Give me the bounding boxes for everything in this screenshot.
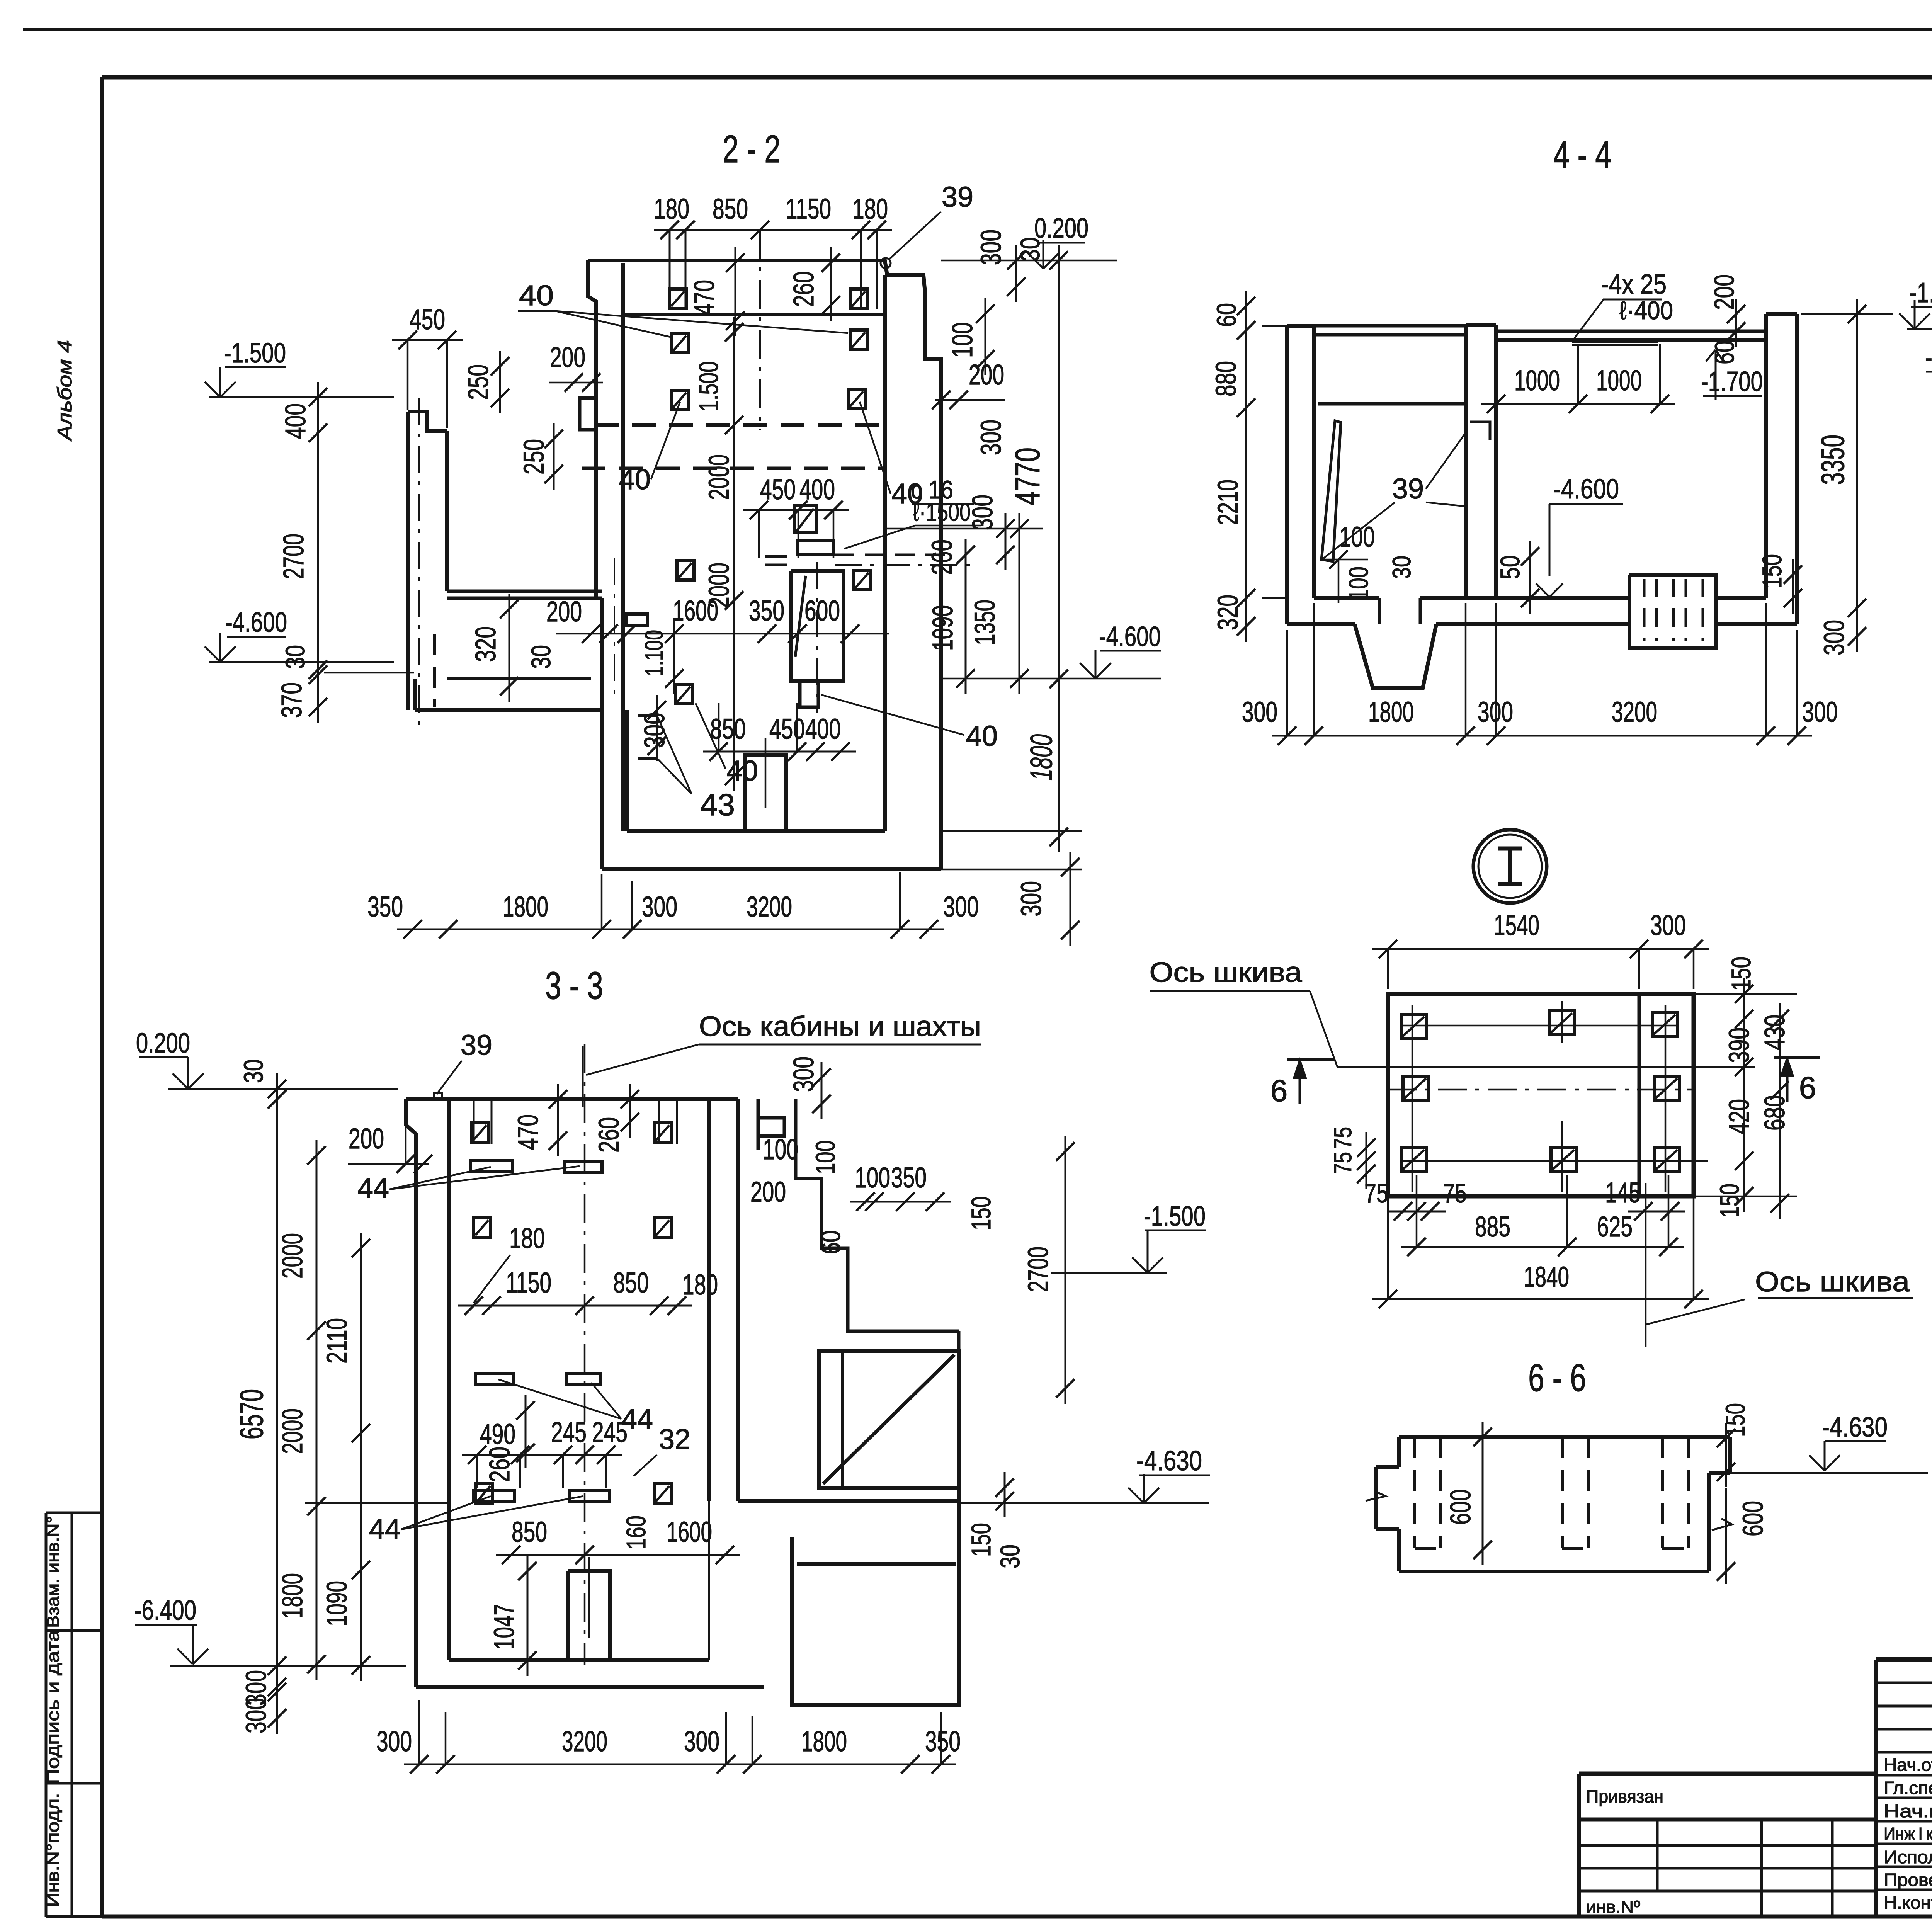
- svg-text:60: 60: [816, 1230, 846, 1254]
- svg-text:260: 260: [787, 271, 820, 307]
- svg-text:2 - 2: 2 - 2: [723, 128, 781, 171]
- svg-text:350: 350: [891, 1162, 927, 1194]
- svg-text:39: 39: [461, 1029, 492, 1061]
- svg-text:300: 300: [684, 1725, 719, 1757]
- svg-text:100: 100: [946, 322, 978, 358]
- svg-text:3200: 3200: [562, 1725, 607, 1757]
- svg-text:150: 150: [1714, 1184, 1745, 1218]
- svg-text:260: 260: [483, 1447, 515, 1482]
- svg-text:75: 75: [1329, 1127, 1357, 1149]
- svg-text:390: 390: [1723, 1027, 1755, 1063]
- svg-text:1150: 1150: [506, 1267, 551, 1299]
- svg-text:2000: 2000: [276, 1233, 308, 1279]
- svg-text:470: 470: [688, 280, 720, 315]
- svg-text:Взам. инв.N°: Взам. инв.N°: [44, 1516, 63, 1628]
- svg-text:39: 39: [942, 181, 973, 213]
- svg-text:600: 600: [1444, 1489, 1476, 1525]
- svg-text:-1.300: -1.300: [1910, 277, 1932, 308]
- svg-text:-1.500: -1.500: [1144, 1201, 1206, 1232]
- svg-text:430: 430: [1759, 1015, 1791, 1050]
- svg-text:30: 30: [1387, 556, 1416, 579]
- svg-text:Альбом 4: Альбом 4: [54, 340, 76, 442]
- svg-text:40: 40: [726, 755, 758, 787]
- svg-text:1000: 1000: [1514, 364, 1560, 396]
- svg-text:-4х 25: -4х 25: [1601, 269, 1667, 300]
- svg-text:680: 680: [1759, 1095, 1791, 1131]
- svg-text:39: 39: [1392, 473, 1424, 505]
- svg-text:2700: 2700: [277, 534, 310, 579]
- svg-text:-1.500: -1.500: [1925, 342, 1932, 373]
- svg-text:40: 40: [891, 478, 923, 510]
- svg-text:Подпись и дата: Подпись и дата: [44, 1629, 63, 1784]
- svg-text:43: 43: [700, 787, 735, 822]
- svg-text:1800: 1800: [276, 1573, 308, 1619]
- svg-text:Привязан: Привязан: [1586, 1786, 1663, 1806]
- svg-text:Инж I кат: Инж I кат: [1884, 1824, 1932, 1844]
- svg-text:600: 600: [804, 595, 840, 627]
- svg-text:1540: 1540: [1494, 909, 1539, 941]
- svg-text:1090: 1090: [927, 605, 959, 651]
- svg-text:2000: 2000: [703, 454, 735, 500]
- svg-text:6: 6: [1799, 1070, 1816, 1105]
- svg-text:300: 300: [943, 891, 979, 923]
- svg-text:инв.Nº: инв.Nº: [1586, 1898, 1640, 1917]
- svg-text:3 - 3: 3 - 3: [545, 964, 603, 1007]
- svg-text:40: 40: [519, 279, 554, 311]
- svg-text:300: 300: [1242, 696, 1277, 728]
- svg-text:260: 260: [593, 1117, 625, 1153]
- svg-text:32: 32: [659, 1423, 690, 1455]
- svg-text:300: 300: [638, 713, 670, 748]
- svg-text:ℓ·400: ℓ·400: [1619, 296, 1673, 325]
- svg-text:100: 100: [1344, 566, 1374, 600]
- svg-text:Гл.спец: Гл.спец: [1884, 1778, 1932, 1798]
- svg-text:1.500: 1.500: [694, 361, 724, 412]
- svg-text:1600: 1600: [673, 595, 718, 627]
- svg-text:180: 180: [509, 1222, 545, 1254]
- svg-text:Ось шкива: Ось шкива: [1755, 1267, 1910, 1298]
- svg-text:490: 490: [480, 1418, 515, 1450]
- svg-text:60: 60: [1211, 303, 1242, 327]
- svg-text:75: 75: [1364, 1178, 1388, 1208]
- svg-text:-1.700: -1.700: [1701, 366, 1763, 397]
- svg-text:Н.контр: Н.контр: [1884, 1893, 1932, 1913]
- svg-text:300: 300: [642, 891, 677, 923]
- svg-text:850: 850: [710, 713, 746, 745]
- svg-text:-4.600: -4.600: [1553, 474, 1619, 505]
- svg-text:400: 400: [805, 713, 841, 745]
- svg-text:300: 300: [1650, 909, 1686, 941]
- svg-text:420: 420: [1723, 1099, 1755, 1134]
- svg-text:100: 100: [810, 1140, 840, 1174]
- svg-text:75: 75: [1329, 1152, 1357, 1174]
- svg-text:150: 150: [966, 1196, 996, 1230]
- svg-text:250: 250: [518, 439, 550, 474]
- svg-text:850: 850: [613, 1267, 649, 1299]
- svg-text:4 - 4: 4 - 4: [1553, 133, 1611, 177]
- svg-text:180: 180: [852, 193, 888, 225]
- svg-text:2110: 2110: [321, 1318, 353, 1364]
- svg-text:850: 850: [713, 193, 748, 225]
- svg-text:1800: 1800: [503, 891, 548, 923]
- svg-text:60: 60: [1709, 340, 1740, 364]
- svg-text:Провер: Провер: [1884, 1870, 1932, 1890]
- svg-text:400: 400: [799, 473, 835, 505]
- svg-text:160: 160: [621, 1515, 651, 1549]
- svg-text:1600: 1600: [667, 1516, 712, 1548]
- svg-text:300: 300: [975, 420, 1007, 455]
- svg-text:300: 300: [1818, 620, 1850, 655]
- svg-text:1800: 1800: [801, 1725, 847, 1757]
- svg-text:30: 30: [1015, 237, 1045, 261]
- svg-text:3350: 3350: [1815, 435, 1851, 485]
- svg-text:Ось кабины и шахты: Ось кабины и шахты: [699, 1011, 981, 1042]
- svg-text:-6.400: -6.400: [134, 1595, 196, 1626]
- svg-text:180: 180: [654, 193, 689, 225]
- svg-text:300: 300: [1015, 881, 1047, 917]
- svg-text:470: 470: [512, 1114, 544, 1150]
- svg-text:260: 260: [926, 539, 958, 575]
- svg-text:250: 250: [462, 364, 494, 400]
- svg-text:880: 880: [1210, 361, 1242, 396]
- svg-text:150: 150: [966, 1523, 996, 1557]
- svg-text:Нач.гр: Нач.гр: [1884, 1801, 1932, 1821]
- svg-text:6570: 6570: [233, 1389, 270, 1439]
- svg-text:1840: 1840: [1524, 1261, 1569, 1293]
- svg-text:1090: 1090: [321, 1581, 353, 1626]
- svg-text:-1.500: -1.500: [224, 338, 286, 369]
- svg-text:1800: 1800: [1368, 696, 1414, 728]
- svg-text:Инв.N°подл.: Инв.N°подл.: [44, 1793, 63, 1907]
- svg-text:1800: 1800: [1024, 734, 1058, 781]
- svg-text:1047: 1047: [488, 1604, 520, 1650]
- svg-text:0.200: 0.200: [136, 1028, 190, 1059]
- svg-text:850: 850: [512, 1516, 547, 1548]
- svg-text:3200: 3200: [1612, 696, 1657, 728]
- svg-text:6 - 6: 6 - 6: [1528, 1356, 1586, 1400]
- svg-text:300: 300: [240, 1698, 272, 1733]
- svg-text:Ось шкива: Ось шкива: [1150, 957, 1303, 988]
- svg-text:2700: 2700: [1022, 1247, 1054, 1292]
- svg-text:Исполн: Исполн: [1884, 1847, 1932, 1867]
- svg-text:100: 100: [855, 1162, 890, 1194]
- svg-text:300: 300: [1802, 696, 1838, 728]
- svg-text:450: 450: [760, 473, 796, 505]
- svg-text:625: 625: [1597, 1211, 1633, 1243]
- svg-text:300: 300: [966, 495, 998, 530]
- svg-text:30: 30: [280, 645, 310, 669]
- svg-text:100: 100: [1339, 521, 1375, 553]
- svg-text:350: 350: [925, 1725, 961, 1757]
- svg-text:40: 40: [619, 463, 651, 495]
- svg-text:44: 44: [357, 1172, 389, 1204]
- svg-text:200: 200: [349, 1122, 384, 1155]
- svg-text:1000: 1000: [1596, 364, 1642, 396]
- svg-text:350: 350: [749, 595, 784, 627]
- svg-text:245: 245: [551, 1416, 587, 1448]
- svg-text:1150: 1150: [786, 193, 831, 225]
- svg-text:30: 30: [526, 645, 556, 669]
- svg-text:Нач.отд: Нач.отд: [1884, 1755, 1932, 1775]
- svg-text:450: 450: [769, 713, 805, 745]
- svg-text:145: 145: [1605, 1177, 1641, 1209]
- svg-text:200: 200: [969, 359, 1004, 391]
- svg-text:40: 40: [966, 720, 998, 752]
- svg-text:75: 75: [1443, 1178, 1467, 1208]
- svg-text:200: 200: [550, 341, 585, 373]
- svg-text:100: 100: [763, 1133, 798, 1165]
- svg-text:50: 50: [1495, 555, 1525, 579]
- svg-text:-4.630: -4.630: [1136, 1446, 1202, 1476]
- svg-text:400: 400: [279, 403, 311, 439]
- svg-text:150: 150: [1720, 1403, 1750, 1437]
- svg-text:1.100: 1.100: [639, 630, 668, 676]
- svg-text:300: 300: [787, 1056, 820, 1092]
- svg-text:-4.630: -4.630: [1822, 1412, 1888, 1443]
- svg-text:150: 150: [1757, 554, 1787, 588]
- svg-text:320: 320: [469, 626, 502, 662]
- svg-text:370: 370: [276, 682, 308, 718]
- svg-text:350: 350: [367, 891, 403, 923]
- svg-text:200: 200: [546, 595, 582, 628]
- svg-text:245: 245: [592, 1416, 628, 1448]
- svg-text:-4.600: -4.600: [225, 607, 287, 638]
- svg-text:2210: 2210: [1212, 480, 1244, 525]
- svg-text:300: 300: [975, 230, 1007, 265]
- svg-text:300: 300: [376, 1725, 412, 1757]
- svg-text:200: 200: [750, 1176, 786, 1208]
- svg-text:600: 600: [1737, 1501, 1769, 1536]
- svg-text:885: 885: [1475, 1211, 1510, 1243]
- svg-text:30: 30: [995, 1544, 1025, 1568]
- svg-text:30: 30: [238, 1059, 269, 1083]
- svg-text:1350: 1350: [969, 600, 1001, 645]
- svg-text:180: 180: [682, 1269, 718, 1301]
- svg-text:150: 150: [1726, 957, 1756, 991]
- svg-text:450: 450: [410, 303, 445, 335]
- svg-text:2000: 2000: [276, 1408, 308, 1454]
- svg-text:4770: 4770: [1009, 447, 1047, 505]
- svg-text:-4.600: -4.600: [1099, 621, 1161, 652]
- svg-text:320: 320: [1212, 595, 1244, 630]
- svg-text:6: 6: [1270, 1073, 1288, 1108]
- svg-text:3200: 3200: [747, 891, 792, 923]
- svg-text:44: 44: [369, 1513, 401, 1545]
